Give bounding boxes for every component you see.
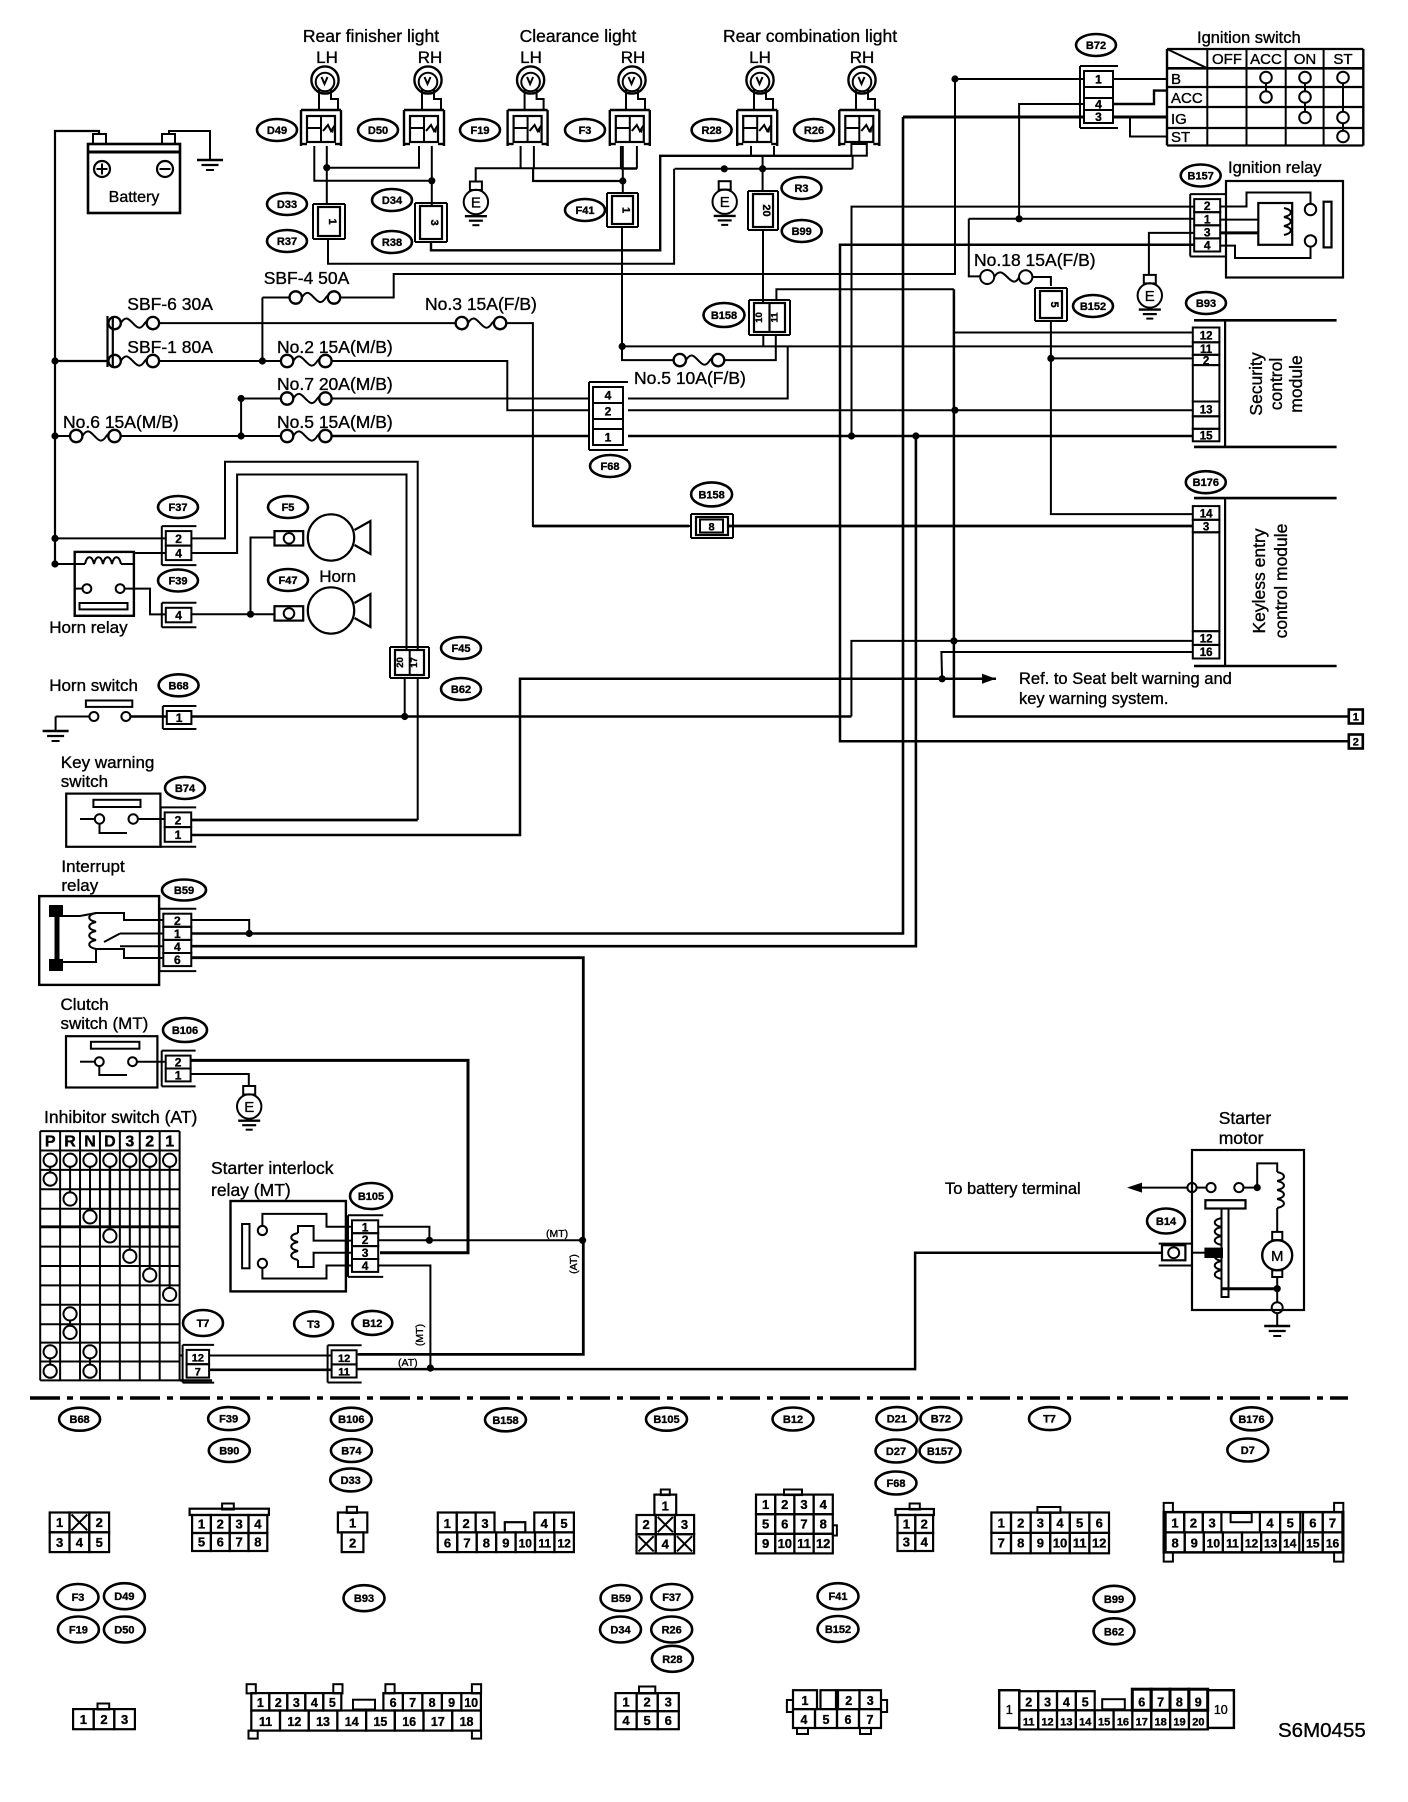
svg-text:2: 2 bbox=[921, 1517, 928, 1532]
connector B14 bbox=[1159, 1243, 1192, 1245]
fuse No.5 15A bbox=[281, 430, 293, 442]
oval R37 bbox=[267, 230, 307, 252]
svg-text:1: 1 bbox=[444, 1516, 451, 1531]
svg-text:5: 5 bbox=[560, 1516, 567, 1531]
svg-text:4: 4 bbox=[541, 1516, 549, 1531]
svg-text:18: 18 bbox=[460, 1715, 474, 1729]
wire F68 pin1 to security pin15 bbox=[628, 435, 1193, 438]
svg-text:1: 1 bbox=[662, 1498, 669, 1513]
svg-text:key warning system.: key warning system. bbox=[1019, 690, 1168, 708]
svg-text:20: 20 bbox=[760, 204, 772, 216]
svg-text:12: 12 bbox=[1041, 1716, 1053, 1728]
svg-text:3: 3 bbox=[362, 1246, 369, 1260]
svg-text:14: 14 bbox=[1283, 1537, 1297, 1551]
svg-text:B176: B176 bbox=[1193, 477, 1219, 489]
wire F37 pin2 to 17 bbox=[191, 462, 417, 649]
svg-text:13: 13 bbox=[1060, 1716, 1072, 1728]
svg-text:9: 9 bbox=[1195, 1696, 1202, 1710]
connector R26 bbox=[839, 109, 879, 111]
oval bottom D33 bbox=[330, 1468, 371, 1491]
svg-text:12: 12 bbox=[1245, 1537, 1259, 1551]
svg-text:B59: B59 bbox=[611, 1593, 631, 1605]
svg-text:1: 1 bbox=[56, 1515, 63, 1530]
oval bottom F68 bbox=[876, 1472, 917, 1495]
oval bottom D49 bbox=[104, 1583, 145, 1609]
connector bottom B68 bbox=[50, 1513, 70, 1533]
svg-text:No.5 10A(F/B): No.5 10A(F/B) bbox=[634, 368, 746, 388]
svg-text:B14: B14 bbox=[1156, 1216, 1177, 1228]
node D50-D34 junction bbox=[428, 177, 435, 184]
svg-text:6: 6 bbox=[174, 953, 181, 967]
svg-text:15: 15 bbox=[373, 1715, 387, 1729]
svg-text:4: 4 bbox=[1266, 1516, 1274, 1531]
svg-text:20: 20 bbox=[1192, 1716, 1204, 1728]
connector bottom D21 bbox=[910, 1504, 920, 1510]
svg-text:8: 8 bbox=[483, 1536, 490, 1551]
svg-text:3: 3 bbox=[903, 1535, 910, 1550]
svg-text:5: 5 bbox=[1048, 301, 1060, 307]
arrow ref bbox=[982, 674, 996, 684]
relay starter interlock slot bbox=[242, 1224, 249, 1268]
wire B158 pin11 riser bbox=[776, 289, 954, 301]
svg-text:9: 9 bbox=[762, 1536, 769, 1551]
switch inhibitor contacts bbox=[44, 1154, 57, 1167]
svg-text:2: 2 bbox=[642, 1517, 649, 1532]
wire horn switch line bbox=[130, 715, 166, 717]
svg-text:(AT): (AT) bbox=[398, 1357, 418, 1369]
svg-text:3: 3 bbox=[428, 219, 440, 225]
oval bottom B12 bbox=[773, 1408, 814, 1431]
svg-text:D49: D49 bbox=[267, 125, 287, 137]
connector bottom B12 bbox=[784, 1490, 802, 1496]
oval B68 bbox=[159, 674, 199, 696]
connector B14 to plunger bbox=[1205, 1249, 1222, 1257]
node x955 keyless12 bbox=[950, 637, 957, 644]
svg-text:B68: B68 bbox=[169, 680, 189, 692]
wire relay to F39 bbox=[125, 589, 166, 615]
connector bottom B106 bbox=[347, 1507, 357, 1513]
svg-text:SBF-4 50A: SBF-4 50A bbox=[264, 268, 350, 288]
svg-text:Ignition switch: Ignition switch bbox=[1197, 29, 1301, 47]
connector B93 pins bbox=[1193, 328, 1220, 343]
svg-text:13: 13 bbox=[1200, 404, 1213, 416]
svg-text:D33: D33 bbox=[277, 199, 297, 211]
svg-text:F68: F68 bbox=[887, 1478, 906, 1490]
wire No.6 to No.5 bbox=[121, 435, 281, 437]
svg-text:OFF: OFF bbox=[1212, 51, 1242, 68]
svg-text:8: 8 bbox=[820, 1517, 827, 1532]
svg-text:4: 4 bbox=[311, 1696, 318, 1710]
svg-text:(AT): (AT) bbox=[568, 1254, 580, 1274]
connector R26 stub bbox=[851, 144, 866, 156]
wire clutch pin1 to E bbox=[191, 1074, 249, 1086]
svg-text:D50: D50 bbox=[114, 1625, 134, 1637]
relay interrupt box bbox=[39, 896, 159, 985]
node interrupt junction bbox=[246, 930, 253, 937]
svg-text:5: 5 bbox=[329, 1696, 336, 1710]
svg-text:3: 3 bbox=[1208, 1516, 1215, 1531]
ground battery bbox=[197, 159, 223, 161]
wire battery to F37 pin2 bbox=[55, 537, 166, 539]
wire B72 pin3 to interrupt relay bbox=[191, 117, 903, 934]
wire starter ground bbox=[1276, 1313, 1278, 1326]
svg-text:2: 2 bbox=[644, 1695, 651, 1710]
svg-text:6: 6 bbox=[217, 1535, 224, 1550]
oval bottom B157 bbox=[920, 1440, 961, 1463]
svg-text:E: E bbox=[244, 1099, 254, 1116]
ground E under rear combination LH bbox=[719, 181, 731, 190]
oval B158 8 bbox=[691, 482, 732, 506]
relay horn coil bbox=[85, 557, 121, 564]
svg-text:13: 13 bbox=[316, 1715, 330, 1729]
svg-text:relay (MT): relay (MT) bbox=[211, 1180, 291, 1200]
node battery horn tap2 bbox=[51, 560, 58, 567]
relay starter interlock wiring bbox=[262, 1214, 352, 1227]
svg-text:7: 7 bbox=[1157, 1696, 1164, 1710]
node x955 sec13 bbox=[951, 407, 958, 414]
svg-text:F37: F37 bbox=[169, 502, 188, 514]
connector B72 bbox=[1080, 65, 1118, 67]
wire B12 pin11 to starter bbox=[357, 1253, 1162, 1369]
svg-text:B152: B152 bbox=[1080, 301, 1106, 313]
node battery No6 tap bbox=[51, 432, 58, 439]
svg-text:2: 2 bbox=[845, 1694, 852, 1708]
svg-text:2: 2 bbox=[605, 405, 612, 419]
connector B106 bbox=[162, 1050, 196, 1052]
svg-text:17: 17 bbox=[1136, 1716, 1148, 1728]
svg-text:Rear combination light: Rear combination light bbox=[723, 26, 897, 46]
svg-text:12: 12 bbox=[338, 1353, 350, 1365]
motor starter coil bbox=[1257, 1163, 1277, 1187]
wire SBF-1 to No.2 bbox=[159, 360, 281, 362]
svg-text:No.5 15A(M/B): No.5 15A(M/B) bbox=[277, 412, 393, 432]
wire F68 pin4 to sec11 drop bbox=[628, 346, 788, 398]
oval D49 bbox=[257, 119, 297, 141]
connector bottom 123 bbox=[98, 1704, 110, 1710]
svg-text:8: 8 bbox=[1017, 1536, 1024, 1551]
svg-text:17: 17 bbox=[409, 657, 420, 668]
wire B158 pin8 to keyless pin3 bbox=[533, 525, 689, 528]
lamp clearance LH bbox=[517, 66, 544, 93]
wire clutch pin2 to B105 pin3 bbox=[191, 1060, 468, 1252]
svg-text:7: 7 bbox=[235, 1535, 242, 1550]
connector bottom B176 bbox=[1164, 1503, 1173, 1512]
connector R3 20 bbox=[748, 190, 778, 192]
switch inhibitor grid bbox=[39, 1131, 41, 1380]
svg-text:8: 8 bbox=[254, 1535, 261, 1550]
separator line bbox=[30, 1396, 1348, 1400]
node B105 pin4 AT line bbox=[427, 1365, 434, 1372]
oval B59 bbox=[162, 880, 206, 901]
svg-text:4: 4 bbox=[1056, 1515, 1064, 1530]
fuse No.6 15A bbox=[70, 430, 82, 442]
fuse No.7 20A bbox=[281, 392, 293, 404]
connector R28 stub bbox=[750, 146, 752, 156]
svg-text:motor: motor bbox=[1219, 1128, 1264, 1148]
svg-text:1: 1 bbox=[802, 1694, 809, 1708]
node B72 pin4 junction bbox=[1016, 215, 1023, 222]
svg-text:8: 8 bbox=[1176, 1696, 1183, 1710]
oval bottom B106 bbox=[331, 1408, 372, 1431]
svg-text:LH: LH bbox=[749, 48, 771, 67]
svg-text:3: 3 bbox=[121, 1712, 128, 1727]
svg-text:6: 6 bbox=[781, 1517, 788, 1532]
oval bottom D34 bbox=[600, 1617, 641, 1643]
wire B72 pin4 left bbox=[1019, 104, 1084, 219]
wire No.7 left bbox=[241, 398, 281, 400]
oval bottom B74 bbox=[331, 1439, 372, 1462]
connector B158 8 bbox=[691, 513, 733, 515]
svg-text:11: 11 bbox=[1226, 1537, 1239, 1551]
svg-text:12: 12 bbox=[1200, 634, 1213, 646]
connector B74 bbox=[161, 806, 197, 808]
svg-text:4: 4 bbox=[362, 1259, 369, 1273]
wire B158 pin10 to security pin11 bbox=[622, 345, 1193, 347]
svg-text:Keyless entry: Keyless entry bbox=[1249, 528, 1269, 633]
svg-text:control module: control module bbox=[1271, 524, 1291, 639]
ground E under clearance LH bbox=[470, 182, 482, 191]
wire B157 pin1 line bbox=[969, 218, 1194, 220]
svg-text:M: M bbox=[1271, 1248, 1284, 1265]
node starter coil tap bbox=[1254, 1184, 1261, 1191]
svg-text:2: 2 bbox=[362, 1233, 369, 1247]
svg-text:1: 1 bbox=[605, 431, 612, 445]
fuse No.5 10A bbox=[674, 354, 686, 366]
svg-text:10: 10 bbox=[464, 1696, 478, 1710]
connector B157 bbox=[1190, 193, 1225, 195]
svg-text:2: 2 bbox=[275, 1696, 282, 1710]
svg-text:R: R bbox=[64, 1134, 76, 1151]
svg-text:E: E bbox=[720, 194, 730, 211]
wire No.2 to F68 pin2 bbox=[332, 361, 590, 410]
node ref junction bbox=[939, 675, 946, 682]
connector B152 5 bbox=[1035, 287, 1067, 289]
svg-text:18: 18 bbox=[1155, 1716, 1167, 1728]
wire B72 pin3 to table IG bbox=[1113, 116, 1167, 119]
svg-text:T3: T3 bbox=[307, 1319, 320, 1331]
svg-text:SBF-1 80A: SBF-1 80A bbox=[127, 337, 213, 357]
svg-text:12: 12 bbox=[816, 1536, 830, 1551]
svg-text:(MT): (MT) bbox=[546, 1228, 568, 1240]
lamp rear finisher LH bbox=[311, 66, 338, 93]
wire SBF-4 riser bbox=[261, 298, 263, 362]
svg-text:11: 11 bbox=[338, 1366, 350, 1378]
svg-text:1: 1 bbox=[175, 1068, 182, 1082]
svg-text:1: 1 bbox=[903, 1517, 910, 1532]
wire D49 left pin bbox=[314, 146, 432, 181]
svg-text:11: 11 bbox=[259, 1715, 272, 1729]
wire 17 to key warning bbox=[417, 678, 419, 820]
relay interrupt contacts bbox=[120, 933, 163, 935]
svg-text:10: 10 bbox=[778, 1536, 792, 1551]
svg-text:F41: F41 bbox=[829, 1591, 848, 1603]
svg-text:No.6 15A(M/B): No.6 15A(M/B) bbox=[63, 412, 179, 432]
svg-text:D21: D21 bbox=[887, 1414, 907, 1426]
oval B157 main bbox=[1181, 165, 1221, 187]
svg-text:7: 7 bbox=[409, 1696, 416, 1710]
svg-text:1: 1 bbox=[326, 218, 338, 224]
svg-text:R28: R28 bbox=[662, 1654, 682, 1666]
svg-text:2: 2 bbox=[463, 1516, 470, 1531]
lamp clearance RH bbox=[618, 66, 645, 93]
svg-text:B105: B105 bbox=[653, 1414, 679, 1426]
oval bottom B90 bbox=[209, 1439, 250, 1462]
node horn junction bbox=[247, 611, 254, 618]
connector bottom T7 bbox=[1037, 1507, 1060, 1513]
oval bottom D27 bbox=[876, 1440, 917, 1463]
svg-text:3: 3 bbox=[56, 1535, 63, 1550]
svg-text:2: 2 bbox=[1190, 1516, 1197, 1531]
svg-text:16: 16 bbox=[1200, 647, 1213, 659]
svg-text:2: 2 bbox=[1353, 737, 1359, 749]
fuse No.3 15A bbox=[456, 317, 468, 329]
lamp rear combination RH bbox=[848, 66, 875, 93]
svg-text:3: 3 bbox=[800, 1497, 807, 1512]
oval bottom B99 bbox=[1094, 1586, 1135, 1612]
wire No.7 to F68 pin4 bbox=[332, 398, 590, 400]
svg-text:Interrupt: Interrupt bbox=[61, 857, 125, 876]
svg-text:switch: switch bbox=[61, 772, 108, 791]
wire No.18 to B152 bbox=[1032, 277, 1051, 286]
svg-text:ST: ST bbox=[1171, 129, 1190, 146]
svg-text:Rear finisher light: Rear finisher light bbox=[303, 26, 439, 46]
svg-text:5: 5 bbox=[198, 1535, 205, 1550]
svg-text:2: 2 bbox=[1025, 1696, 1032, 1710]
svg-text:10: 10 bbox=[754, 312, 765, 323]
svg-text:5: 5 bbox=[823, 1713, 830, 1727]
wire B12 pin12 AT riser bbox=[357, 1353, 584, 1355]
svg-text:7: 7 bbox=[195, 1366, 201, 1378]
svg-text:11: 11 bbox=[770, 312, 781, 323]
svg-text:F3: F3 bbox=[579, 125, 592, 137]
svg-text:5: 5 bbox=[644, 1713, 651, 1728]
svg-text:B105: B105 bbox=[358, 1191, 384, 1203]
oval T7 bbox=[183, 1310, 223, 1336]
svg-text:4: 4 bbox=[174, 940, 181, 954]
svg-text:4: 4 bbox=[1063, 1696, 1070, 1710]
wire D33 to lamp ground bus bbox=[328, 169, 674, 264]
svg-text:D27: D27 bbox=[886, 1446, 906, 1458]
node B152 junction bbox=[1047, 355, 1054, 362]
svg-text:No.2 15A(M/B): No.2 15A(M/B) bbox=[277, 337, 393, 357]
connector F39 bbox=[162, 602, 197, 604]
svg-text:12: 12 bbox=[557, 1537, 571, 1551]
node 20 horn switch bbox=[401, 713, 408, 720]
oval bottom R26 bbox=[651, 1617, 692, 1643]
svg-text:B72: B72 bbox=[931, 1414, 951, 1426]
connector B176 pins bbox=[1193, 506, 1220, 520]
connector D49 bbox=[301, 109, 341, 111]
wire D49 to D50 bbox=[327, 146, 419, 168]
wire F19 right pin bbox=[533, 168, 623, 181]
svg-text:E: E bbox=[471, 195, 481, 212]
svg-text:Starter: Starter bbox=[1219, 1108, 1272, 1128]
svg-text:6: 6 bbox=[845, 1713, 852, 1727]
wire No.7 riser bbox=[240, 399, 242, 437]
svg-text:LH: LH bbox=[316, 48, 338, 67]
wire T7 to B12 lower bbox=[209, 1369, 332, 1372]
relay starter interlock coil bbox=[291, 1233, 298, 1260]
oval R26 bbox=[794, 119, 834, 141]
svg-text:11: 11 bbox=[538, 1537, 551, 1551]
svg-text:Inhibitor switch (AT): Inhibitor switch (AT) bbox=[44, 1107, 197, 1127]
svg-text:1: 1 bbox=[257, 1696, 264, 1710]
fuse SBF-6 30A bbox=[108, 317, 120, 329]
oval bottom D7 bbox=[1227, 1439, 1268, 1462]
terminal 1 bbox=[1349, 710, 1363, 724]
oval B74 bbox=[165, 777, 205, 799]
svg-text:B90: B90 bbox=[219, 1446, 239, 1458]
svg-text:ACC: ACC bbox=[1171, 90, 1203, 107]
relay horn contacts bbox=[83, 584, 92, 593]
svg-text:12: 12 bbox=[192, 1353, 204, 1365]
svg-text:B74: B74 bbox=[175, 783, 196, 795]
svg-text:1: 1 bbox=[80, 1712, 87, 1727]
wire B152 to security pin2 bbox=[1050, 321, 1052, 358]
wire battery to horn relay coil bbox=[55, 563, 85, 565]
wire fuse to B158 pin11 bbox=[725, 335, 776, 360]
connector bottom F39 B90 bbox=[190, 1509, 269, 1515]
oval D50 bbox=[358, 119, 398, 141]
wire security pin12 bbox=[955, 332, 1193, 334]
wire No.5 to F68 pin1 bbox=[332, 435, 590, 438]
oval R28 bbox=[692, 119, 732, 141]
svg-text:ACC: ACC bbox=[1250, 51, 1282, 68]
node F41 junction bbox=[619, 177, 626, 184]
node B157 pin2 riser bbox=[848, 432, 855, 439]
svg-text:Horn switch: Horn switch bbox=[49, 676, 138, 695]
oval B105 bbox=[350, 1183, 392, 1209]
lamp rear finisher RH bbox=[414, 66, 441, 93]
connector F41 bbox=[607, 192, 638, 194]
motor starter M bbox=[1272, 1232, 1282, 1240]
svg-text:Clearance light: Clearance light bbox=[520, 26, 637, 46]
wire B158 pin10 drop bbox=[762, 335, 764, 347]
svg-text:6: 6 bbox=[1309, 1516, 1316, 1531]
node No.7 riser top bbox=[238, 395, 245, 402]
node battery horn tap1 bbox=[51, 535, 58, 542]
wire B72 pin3 left bbox=[903, 116, 1084, 119]
svg-text:15: 15 bbox=[1200, 431, 1213, 443]
svg-text:3: 3 bbox=[665, 1695, 672, 1710]
wire B72 pin1 left bbox=[955, 78, 1084, 80]
connector F3 stub bbox=[620, 146, 622, 169]
svg-text:RH: RH bbox=[850, 48, 875, 67]
wire B74 pin2 line bbox=[191, 819, 418, 822]
oval B93 main bbox=[1186, 292, 1226, 314]
svg-text:R37: R37 bbox=[277, 236, 297, 248]
svg-text:F45: F45 bbox=[452, 643, 471, 655]
lamp rear combination LH bbox=[746, 66, 773, 93]
svg-text:1: 1 bbox=[165, 1134, 174, 1151]
wire battery to SBF bus bbox=[55, 360, 108, 362]
oval B12sch bbox=[352, 1311, 392, 1335]
oval R3 bbox=[782, 177, 822, 199]
arrow to battery bbox=[1127, 1183, 1142, 1193]
oval B176 main bbox=[1186, 471, 1226, 493]
svg-text:B74: B74 bbox=[341, 1446, 362, 1458]
svg-text:3: 3 bbox=[1037, 1515, 1044, 1530]
wire B72 pin1 to table B bbox=[1113, 78, 1167, 80]
svg-text:1: 1 bbox=[1353, 712, 1359, 724]
node starter motor bottom bbox=[1274, 1285, 1281, 1292]
svg-text:Horn relay: Horn relay bbox=[49, 618, 128, 637]
svg-text:D7: D7 bbox=[1241, 1445, 1255, 1457]
wire B105 pin4 bbox=[378, 1266, 430, 1369]
connector T3 B12 bbox=[328, 1344, 362, 1346]
connector bottom B105 bbox=[661, 1490, 670, 1496]
svg-text:Key warning: Key warning bbox=[61, 753, 155, 772]
